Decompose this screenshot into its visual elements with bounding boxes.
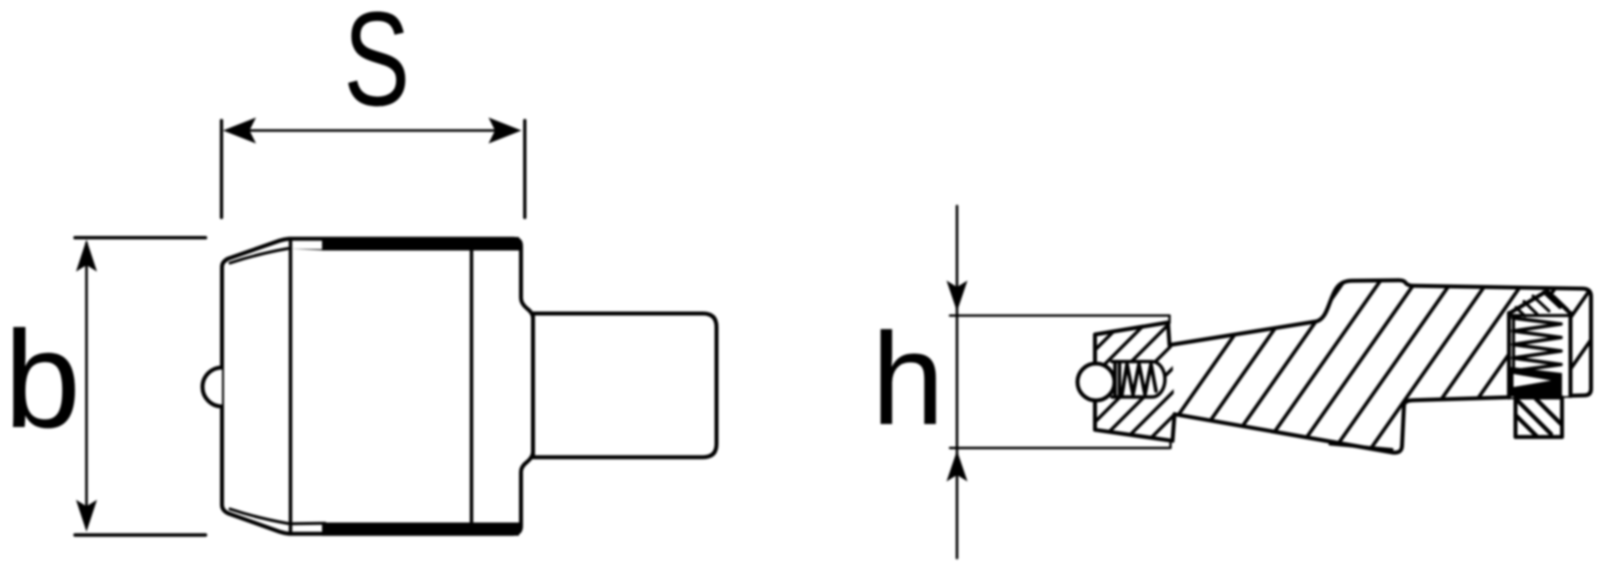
extension jog bottom at tang corner <box>1169 441 1171 448</box>
pin spring lower coils dark zone <box>1511 367 1562 397</box>
body inner vertical line left <box>289 239 293 534</box>
chamfer inner contour top-left <box>230 249 288 264</box>
protruding pin hatch <box>1516 399 1562 437</box>
plug hatch <box>1516 292 1568 316</box>
pin head blob <box>1513 379 1561 403</box>
dimension b extension line top <box>75 236 206 239</box>
chamfer inner contour bottom-left <box>230 509 288 524</box>
dimension b arrowhead bottom <box>76 500 97 532</box>
cone bottom chamfer sliver line <box>1330 444 1392 450</box>
svg-text:S: S <box>344 0 410 133</box>
extension jog top at tang corner <box>1168 316 1170 323</box>
pin spring zigzag <box>1513 318 1561 378</box>
svg-text:b: b <box>4 303 81 457</box>
dimension S arrow line <box>230 129 514 132</box>
detent ball bump on left edge <box>203 368 223 407</box>
adapter square drive shaft (right plug) <box>533 314 717 458</box>
pin bore left wall <box>1507 313 1511 398</box>
dimension b arrowhead top <box>76 240 97 272</box>
dimension h lower arrowhead <box>947 451 968 482</box>
section body outline <box>1095 280 1591 452</box>
pin plug peak <box>1509 291 1571 314</box>
pin bore top line <box>1509 314 1570 317</box>
dimension S extension line right <box>523 121 526 218</box>
dimension S arrowhead right <box>489 118 522 144</box>
body inner vertical line right <box>470 239 474 534</box>
dimension h extension line bottom <box>950 447 1170 449</box>
dimension h line <box>956 206 959 558</box>
adapter body outline <box>222 239 533 534</box>
tang spring <box>1115 362 1156 397</box>
dimension h extension line top <box>950 314 1170 316</box>
svg-text:h: h <box>872 305 945 452</box>
spring slot in tang <box>1112 362 1165 397</box>
dimension S extension line left <box>220 121 223 218</box>
dimension b extension line bottom <box>75 533 206 536</box>
bottom edge dark wedge <box>291 522 326 526</box>
dimension S arrowhead left <box>223 118 256 144</box>
tang hatching 45deg <box>1004 315 1274 441</box>
pin bore right wall <box>1569 313 1573 396</box>
locking pin bore white fill <box>1509 291 1571 398</box>
dimension h upper arrowhead <box>947 281 968 312</box>
spring white wedge <box>1514 374 1552 387</box>
top edge dark wedge <box>291 237 520 251</box>
body hatching 55deg <box>1144 257 1600 464</box>
protruding pin <box>1516 398 1563 438</box>
pin spring left bar <box>1512 319 1515 388</box>
detent ball in section <box>1078 364 1115 401</box>
dimension b arrow line <box>85 243 88 527</box>
